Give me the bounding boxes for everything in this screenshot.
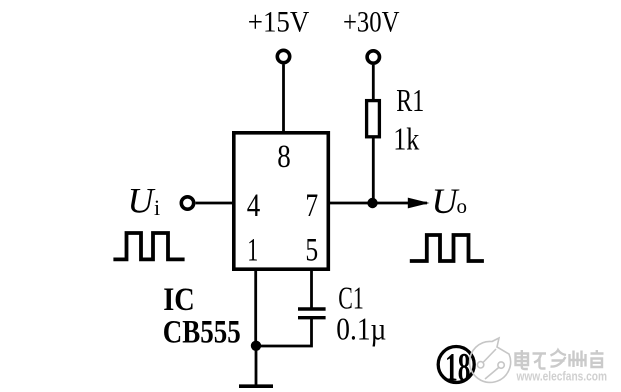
svg-text:0.1µ: 0.1µ xyxy=(336,311,386,347)
op IC box CB555 xyxy=(234,133,328,269)
svg-text:1k: 1k xyxy=(393,121,419,157)
junction node output xyxy=(367,198,377,208)
junction node ground xyxy=(251,341,261,351)
svg-text:8: 8 xyxy=(277,139,291,175)
svg-text:+30V: +30V xyxy=(343,6,400,39)
svg-text:7: 7 xyxy=(305,188,318,224)
svg-text:CB555: CB555 xyxy=(163,315,241,351)
svg-text:18: 18 xyxy=(445,345,471,390)
output arrow head xyxy=(408,198,430,209)
svg-text:1: 1 xyxy=(247,233,258,269)
capacitor C1 bottom plate xyxy=(298,316,326,319)
terminal circle +30V xyxy=(367,51,379,63)
wire R1 to output node xyxy=(372,137,375,204)
watermark logo circle xyxy=(470,338,511,382)
wire node to ground xyxy=(255,346,258,385)
wire input to pin 4 xyxy=(196,202,233,205)
wire pin 1 down xyxy=(254,269,257,346)
wire +15V to pin 8 xyxy=(282,65,285,133)
svg-text:i: i xyxy=(154,195,160,220)
svg-text:U: U xyxy=(432,181,460,221)
wire capacitor bottom to node xyxy=(256,316,312,346)
capacitor C1 top plate xyxy=(298,307,326,310)
svg-text:5: 5 xyxy=(305,233,318,269)
svg-text:R1: R1 xyxy=(396,82,424,118)
terminal circle +15V xyxy=(277,50,289,62)
svg-text:www.elecfans.com: www.elecfans.com xyxy=(516,369,607,384)
ground xyxy=(239,384,273,388)
svg-text:IC: IC xyxy=(163,282,195,318)
resistor R1 body xyxy=(367,101,380,137)
svg-text:+15V: +15V xyxy=(248,6,310,39)
svg-text:o: o xyxy=(457,194,468,218)
input terminal circle xyxy=(181,197,193,209)
svg-text:4: 4 xyxy=(247,188,260,224)
svg-text:U: U xyxy=(128,181,156,221)
stamp circle 18 xyxy=(438,347,474,383)
output square wave xyxy=(410,235,484,261)
input square wave xyxy=(113,233,184,259)
wire +30V to resistor R1 xyxy=(372,65,375,101)
wire pin 5 to capacitor C1 xyxy=(310,269,313,308)
watermark chinese text xyxy=(516,350,604,369)
wire pin 7 to output arrow xyxy=(329,202,427,205)
